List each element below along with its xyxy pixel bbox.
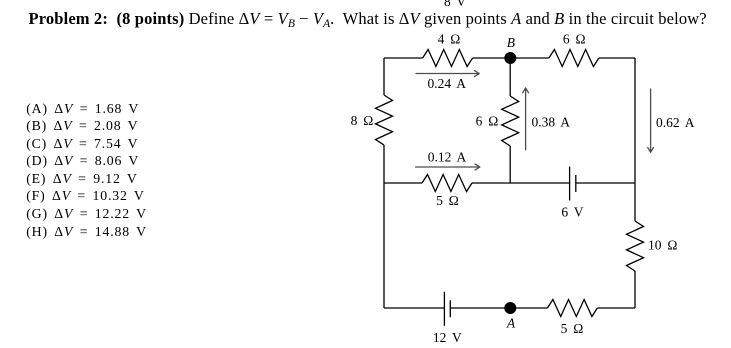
svg-text:6 Ω: 6 Ω (476, 114, 499, 129)
svg-text:6 Ω: 6 Ω (563, 31, 586, 46)
svg-text:0.62 A: 0.62 A (656, 115, 695, 130)
svg-text:5 Ω: 5 Ω (436, 193, 459, 208)
svg-text:6 V: 6 V (561, 205, 583, 220)
svg-text:12 V: 12 V (433, 330, 462, 345)
svg-text:8 Ω: 8 Ω (351, 113, 374, 128)
svg-text:A: A (506, 316, 516, 331)
svg-text:0.12 A: 0.12 A (428, 150, 467, 165)
svg-text:10 Ω: 10 Ω (648, 238, 677, 253)
svg-text:0.24 A: 0.24 A (428, 76, 467, 91)
svg-text:4 Ω: 4 Ω (438, 31, 461, 46)
svg-text:B: B (507, 35, 515, 50)
svg-text:0.38 A: 0.38 A (532, 114, 571, 129)
svg-text:5 Ω: 5 Ω (561, 321, 584, 336)
